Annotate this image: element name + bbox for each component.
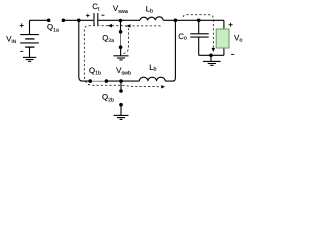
- svg-text:Q1b: Q1b: [89, 66, 101, 77]
- svg-text:Co: Co: [178, 32, 187, 41]
- svg-text:Vswb: Vswb: [116, 66, 131, 77]
- svg-text:VIN: VIN: [6, 34, 17, 45]
- svg-text:Q2a: Q2a: [102, 33, 114, 44]
- svg-text:Q1a: Q1a: [47, 23, 59, 34]
- svg-text:Q2b: Q2b: [102, 93, 114, 104]
- svg-text:Vo: Vo: [234, 34, 242, 44]
- svg-text:Lb: Lb: [149, 63, 156, 73]
- svg-text:Vswa: Vswa: [113, 4, 128, 15]
- svg-text:Lb: Lb: [146, 5, 153, 15]
- svg-text:Ct: Ct: [92, 2, 100, 13]
